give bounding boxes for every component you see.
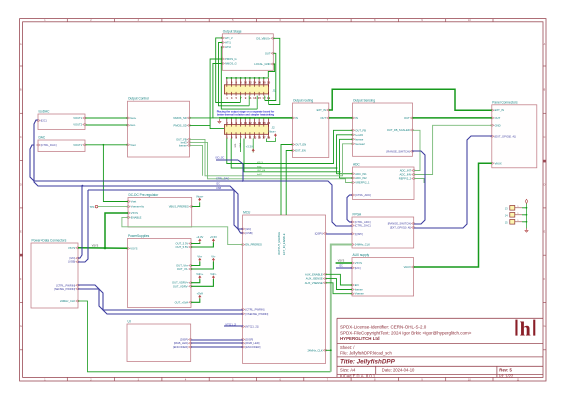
svg-text:Isense2: Isense2 xyxy=(355,142,365,146)
svg-text:[RGB_LED]: [RGB_LED] xyxy=(174,341,188,345)
svg-text:[I2C]: [I2C] xyxy=(70,256,76,260)
svg-text:I2C: I2C xyxy=(339,265,343,268)
svg-text:Vh+: Vh+ xyxy=(197,255,202,259)
svg-text:[CTRL_ADC]: [CTRL_ADC] xyxy=(355,193,371,197)
svg-text:13: 13 xyxy=(253,136,257,140)
svg-text:+5.5V: +5.5V xyxy=(210,235,217,239)
svg-text:[DISP]: [DISP] xyxy=(180,338,188,342)
svg-text:OUT_FB: OUT_FB xyxy=(257,170,266,172)
svg-text:Vbus+: Vbus+ xyxy=(268,130,276,134)
svg-text:NMOS_G: NMOS_G xyxy=(225,62,237,66)
svg-text:[DISP]: [DISP] xyxy=(245,338,253,342)
svg-text:OUT_VDRV-: OUT_VDRV- xyxy=(173,284,188,288)
svg-text:[CTRL_ADC]: [CTRL_ADC] xyxy=(355,220,371,224)
svg-text:DS_VBUS+: DS_VBUS+ xyxy=(256,36,271,40)
svg-text:IN: IN xyxy=(355,116,358,120)
svg-text:ADC: ADC xyxy=(353,163,360,167)
svg-text:VAUX: VAUX xyxy=(404,265,411,269)
svg-text:VOUT1: VOUT1 xyxy=(73,143,82,147)
svg-text:Vh-: Vh- xyxy=(211,255,215,259)
svg-text:14: 14 xyxy=(253,121,257,125)
svg-text:OUT_3.3V: OUT_3.3V xyxy=(175,242,188,246)
svg-text:SPDX-License-Identifier: CERN-: SPDX-License-Identifier: CERN-OHL-S-2.0 xyxy=(340,325,427,330)
svg-text:10: 10 xyxy=(244,121,248,125)
svg-text:TP1: TP1 xyxy=(90,205,95,209)
svg-text:VSYS: VSYS xyxy=(92,244,99,247)
svg-text:VOUT1: VOUT1 xyxy=(73,116,82,120)
svg-text:OUT_Vh-: OUT_Vh- xyxy=(177,267,188,271)
svg-text:IsoDAC: IsoDAC xyxy=(39,110,51,114)
svg-text:Vdrv-: Vdrv- xyxy=(210,272,217,276)
svg-text:NMOS_SD: NMOS_SD xyxy=(173,116,186,120)
svg-text:OUT: OUT xyxy=(320,116,326,120)
svg-text:Output Stage: Output Stage xyxy=(223,29,242,33)
svg-text:12: 12 xyxy=(249,121,253,125)
svg-text:DAC: DAC xyxy=(39,136,46,140)
svg-text:16: 16 xyxy=(258,121,262,125)
svg-text:HTI1: HTI1 xyxy=(225,41,231,45)
svg-text:HTI2: HTI2 xyxy=(225,45,231,49)
svg-text:Id: 1/22: Id: 1/22 xyxy=(499,374,514,379)
svg-text:PowerSupplies: PowerSupplies xyxy=(128,234,150,238)
svg-text:[EXT_GPIO[0..4]]: [EXT_GPIO[0..4]] xyxy=(495,134,516,138)
svg-text:EXT_IN: EXT_IN xyxy=(317,108,326,112)
svg-text:OUT_EN: OUT_EN xyxy=(295,143,306,147)
svg-text:VSYS: VSYS xyxy=(338,260,345,263)
svg-text:OUT: OUT xyxy=(495,116,501,120)
svg-text:VOUT2: VOUT2 xyxy=(73,123,82,127)
svg-text:Isense: Isense xyxy=(355,137,363,141)
svg-text:24MHz_CLK: 24MHz_CLK xyxy=(355,243,370,247)
svg-text:EN: EN xyxy=(355,283,359,287)
svg-text:10: 10 xyxy=(244,81,248,85)
svg-text:AUX_ISENSE: AUX_ISENSE xyxy=(306,277,323,281)
svg-text:Iset-: Iset- xyxy=(130,123,135,127)
svg-text:EXT_IN: EXT_IN xyxy=(495,108,504,112)
svg-text:MCU: MCU xyxy=(243,211,251,215)
svg-text:PMOS_SD: PMOS_SD xyxy=(174,123,187,127)
svg-text:VSYS: VSYS xyxy=(355,261,362,265)
svg-text:ENABLE: ENABLE xyxy=(131,215,142,219)
svg-text:Power+Data Connectors: Power+Data Connectors xyxy=(32,239,67,243)
svg-text:15: 15 xyxy=(258,96,262,100)
svg-text:[USB]: [USB] xyxy=(68,260,75,264)
svg-text:[ENCODER]: [ENCODER] xyxy=(245,345,260,349)
svg-text:17: 17 xyxy=(262,136,266,140)
svg-text:11: 11 xyxy=(249,136,252,140)
svg-text:[NTC[1..2]]: [NTC[1..2]] xyxy=(245,325,258,329)
svg-text:EN_PREREG: EN_PREREG xyxy=(245,243,262,247)
svg-text:J2: J2 xyxy=(272,125,276,129)
svg-text:OUT: OUT xyxy=(265,51,271,55)
svg-text:Vbus+: Vbus+ xyxy=(196,194,204,198)
svg-text:KiCad E.D.A. 8.0.1: KiCad E.D.A. 8.0.1 xyxy=(340,374,376,379)
svg-text:Isense: Isense xyxy=(355,288,363,292)
svg-text:G: G xyxy=(544,325,546,328)
svg-text:Vsense+Iio: Vsense+Iio xyxy=(131,205,145,209)
svg-text:[USB]: [USB] xyxy=(245,231,252,235)
svg-text:18: 18 xyxy=(262,81,266,85)
svg-text:UI: UI xyxy=(128,320,131,324)
svg-text:Sheet: /: Sheet: / xyxy=(340,345,355,350)
svg-text:OUT_VDRV+: OUT_VDRV+ xyxy=(172,281,189,285)
svg-text:VBUS_PREREG: VBUS_PREREG xyxy=(169,205,189,209)
svg-text:EXT_IN_ENABLE: EXT_IN_ENABLE xyxy=(282,233,286,255)
svg-text:I+ref/2: I+ref/2 xyxy=(355,133,363,137)
svg-text:20: 20 xyxy=(267,121,271,125)
svg-text:14: 14 xyxy=(253,81,257,85)
svg-text:Date: 2024-04-10: Date: 2024-04-10 xyxy=(382,367,415,372)
svg-text:18: 18 xyxy=(262,121,266,125)
svg-text:C: C xyxy=(20,136,22,139)
svg-text:better thermal isolation and s: better thermal isolation and simpler hea… xyxy=(217,113,274,116)
svg-text:[I2C]: [I2C] xyxy=(355,266,361,270)
svg-text:VREFP/2_1: VREFP/2_1 xyxy=(355,181,370,185)
svg-text:[QSPI]: [QSPI] xyxy=(315,231,323,235)
svg-text:VSYS: VSYS xyxy=(131,211,138,215)
svg-text:[QSPI]: [QSPI] xyxy=(355,232,363,236)
svg-text:I2C: I2C xyxy=(216,182,220,185)
svg-text:20: 20 xyxy=(267,81,271,85)
svg-text:Output Control: Output Control xyxy=(128,97,149,101)
svg-text:+3.3V: +3.3V xyxy=(246,145,253,149)
svg-text:OUT_Vh+: OUT_Vh+ xyxy=(176,264,188,268)
svg-text:OUT_FB_SCALED: OUT_FB_SCALED xyxy=(387,128,410,132)
svg-text:Vset: Vset xyxy=(130,143,136,147)
svg-text:17: 17 xyxy=(262,96,266,100)
svg-text:Iset+: Iset+ xyxy=(130,116,136,120)
svg-text:ADC_INV: ADC_INV xyxy=(400,173,412,177)
svg-text:G: G xyxy=(20,325,22,328)
svg-text:ISO_I2C: ISO_I2C xyxy=(216,158,225,160)
svg-text:Output routing: Output routing xyxy=(293,99,313,103)
svg-text:PMOS_G: PMOS_G xyxy=(225,57,237,61)
svg-text:19: 19 xyxy=(267,136,271,140)
svg-text:OUT_5.5V: OUT_5.5V xyxy=(175,245,188,249)
svg-text:D: D xyxy=(20,183,22,186)
svg-text:Vdrv+: Vdrv+ xyxy=(196,272,204,276)
svg-text:12: 12 xyxy=(249,81,253,85)
svg-text:AUX_ENABLE: AUX_ENABLE xyxy=(305,272,323,276)
svg-text:15: 15 xyxy=(258,136,262,140)
svg-text:Size: A4: Size: A4 xyxy=(340,367,356,372)
svg-text:VAUX: VAUX xyxy=(495,161,502,165)
svg-text:[CTRL_DAC]: [CTRL_DAC] xyxy=(355,224,371,228)
svg-text:DC-DC Pre-regulator: DC-DC Pre-regulator xyxy=(129,193,160,197)
svg-text:ADC_IN2: ADC_IN2 xyxy=(355,176,367,180)
svg-text:VSYS: VSYS xyxy=(130,246,137,250)
svg-text:IN: IN xyxy=(295,116,298,120)
svg-text:[CTRL_DAC]: [CTRL_DAC] xyxy=(41,143,57,147)
svg-text:Vset: Vset xyxy=(131,200,137,204)
svg-text:[VSENSE_PWRIN]: [VSENSE_PWRIN] xyxy=(245,312,268,316)
svg-text:File: JellyfishDPP.kicad_sch: File: JellyfishDPP.kicad_sch xyxy=(340,350,392,355)
svg-text:HTI_V: HTI_V xyxy=(257,162,264,164)
svg-text:OUT_+5VA: OUT_+5VA xyxy=(175,300,189,304)
svg-text:Vsense: Vsense xyxy=(355,292,364,296)
svg-text:[RANGE_SWITCH]: [RANGE_SWITCH] xyxy=(387,149,410,153)
svg-text:ADC_IN1: ADC_IN1 xyxy=(355,172,367,176)
svg-text:[SENSE_PWRIN]: [SENSE_PWRIN] xyxy=(54,287,75,291)
svg-text:[I2C]: [I2C] xyxy=(41,119,47,123)
svg-text:Rev: 5: Rev: 5 xyxy=(499,367,512,372)
svg-text:J1: J1 xyxy=(273,89,277,93)
svg-text:VSYS: VSYS xyxy=(68,246,75,250)
svg-text:REFP/2_2: REFP/2_2 xyxy=(399,177,412,181)
svg-text:+3.3V: +3.3V xyxy=(196,235,203,239)
svg-text:AUX supply: AUX supply xyxy=(353,253,370,257)
svg-text:+5VA: +5VA xyxy=(197,292,204,296)
svg-text:Output Sensing: Output Sensing xyxy=(353,99,375,103)
svg-text:Isense: Isense xyxy=(179,143,187,147)
svg-text:h: h xyxy=(520,319,531,341)
svg-text:24MHz_CLK: 24MHz_CLK xyxy=(307,348,322,352)
svg-text:USB: USB xyxy=(216,187,221,190)
svg-text:[ENCODER]: [ENCODER] xyxy=(173,345,188,349)
svg-text:[RGB_LED]: [RGB_LED] xyxy=(245,341,259,345)
svg-text:Iref/2: Iref/2 xyxy=(257,173,263,176)
svg-text:16: 16 xyxy=(258,81,262,85)
svg-text:SPDX-FileCopyrightText: 2024 I: SPDX-FileCopyrightText: 2024 Igor Brkic … xyxy=(340,330,472,335)
svg-text:LOCAL_GND: LOCAL_GND xyxy=(254,62,270,66)
svg-text:24MHz_CLK: 24MHz_CLK xyxy=(60,299,75,303)
svg-text:[I2C]: [I2C] xyxy=(245,227,251,231)
svg-text:[EXT_GPIO[0..4]]: [EXT_GPIO[0..4]] xyxy=(390,226,411,230)
svg-text:OUTPUT_ENABLE: OUTPUT_ENABLE xyxy=(277,232,281,255)
svg-text:ADC_INT: ADC_INT xyxy=(400,169,412,173)
svg-text:Panel Connectors: Panel Connectors xyxy=(492,100,518,104)
svg-text:13: 13 xyxy=(253,96,257,100)
svg-text:HYPERGLITCH Ltd: HYPERGLITCH Ltd xyxy=(340,336,380,341)
svg-text:CTRL_DAC: CTRL_DAC xyxy=(216,178,229,181)
svg-text:FPGA: FPGA xyxy=(353,213,363,217)
svg-text:OUT_FB: OUT_FB xyxy=(355,128,366,132)
svg-text:D: D xyxy=(544,183,546,186)
svg-text:[CTRL_PWRIN]: [CTRL_PWRIN] xyxy=(56,283,75,287)
svg-text:GND: GND xyxy=(495,123,501,127)
svg-text:OUT: OUT xyxy=(404,116,410,120)
svg-text:C: C xyxy=(544,136,546,139)
svg-text:HTI_V: HTI_V xyxy=(225,36,233,40)
svg-text:EXT_EN: EXT_EN xyxy=(295,149,306,153)
svg-text:[RANGE_SWITCH]: [RANGE_SWITCH] xyxy=(388,222,411,226)
svg-text:[CTRL_PWRIN]: [CTRL_PWRIN] xyxy=(245,308,264,312)
svg-text:AUX_VSENSE: AUX_VSENSE xyxy=(305,281,323,285)
svg-text:Title: JellyfishDPP: Title: JellyfishDPP xyxy=(340,358,396,365)
